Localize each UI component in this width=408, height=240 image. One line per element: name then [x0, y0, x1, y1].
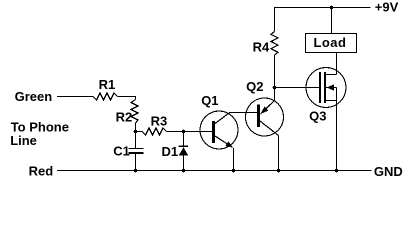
node junction dot R2/R3/C1 [134, 130, 138, 134]
svg-text:R3: R3 [151, 114, 168, 129]
mosfet Q3 [306, 68, 346, 108]
svg-text:+9V: +9V [375, 0, 399, 15]
wire rail to Load [331, 8, 333, 34]
junction dot Q2 collector to rail [277, 169, 281, 173]
junction dot rail to Load [330, 6, 334, 10]
svg-text:Red: Red [29, 164, 54, 179]
svg-text:R4: R4 [253, 40, 270, 55]
wire rail corner to R4 [274, 7, 276, 32]
junction dot D1 to rail [182, 169, 186, 173]
svg-text:GND: GND [374, 164, 403, 179]
svg-text:Q3: Q3 [309, 108, 326, 123]
label To Phone Line [10, 119, 69, 148]
svg-text:To Phone: To Phone [11, 119, 69, 134]
wire Q2 collector to rail [278, 136, 280, 171]
wire red lead / GND rail [57, 170, 372, 172]
transistor Q2 [246, 98, 284, 136]
label R1 [99, 77, 116, 92]
wire node to Q3 gate [275, 87, 320, 89]
label Q1 [201, 93, 218, 108]
capacitor C1 [129, 132, 144, 171]
wire Load to Q3 drain [336, 53, 338, 75]
resistor R3 [142, 128, 167, 135]
wire Q1 emitter to rail [233, 148, 235, 171]
wire R4 to node [274, 55, 276, 88]
svg-text:R1: R1 [99, 77, 116, 92]
wire R3 to Q1 base [167, 131, 213, 133]
svg-text:R2: R2 [116, 109, 133, 124]
wire Q3 source to rail [336, 88, 338, 171]
load box [306, 34, 357, 53]
junction dot C1 to rail [134, 169, 138, 173]
label R2 [116, 109, 133, 124]
wire R1 to R2 corner [118, 97, 136, 100]
transistor Q1 [200, 111, 238, 149]
svg-text:Load: Load [314, 35, 347, 50]
node junction dot R4/Q2/Q3 gate [273, 86, 277, 90]
junction dot Q1 emitter to rail [232, 169, 236, 173]
resistor R4 [271, 32, 278, 56]
svg-text:D1: D1 [162, 144, 179, 159]
resistor R1 [93, 93, 118, 100]
junction dot Q3 source to rail [335, 169, 339, 173]
wire Q1 collector to Q2 base [230, 112, 258, 114]
label Q3 [309, 108, 326, 123]
label Q2 [246, 79, 263, 94]
wire node to R3 [136, 131, 143, 133]
label C1 [113, 143, 130, 158]
node junction dot D1 [182, 130, 186, 134]
wire R2 to node [135, 123, 137, 132]
label Red [29, 164, 54, 179]
label R3 [151, 114, 168, 129]
svg-text:Line: Line [10, 133, 37, 148]
label Load [314, 35, 347, 50]
svg-text:Q1: Q1 [201, 93, 218, 108]
svg-text:C1: C1 [113, 143, 130, 158]
label D1 [162, 144, 179, 159]
wire green lead [57, 96, 93, 98]
label +9V [375, 0, 399, 15]
label GND [374, 164, 403, 179]
label Green [15, 89, 53, 104]
wire Q2 emitter to node [274, 88, 276, 101]
diode D1 [179, 132, 189, 171]
svg-text:Green: Green [15, 89, 53, 104]
label R4 [253, 40, 270, 55]
resistor R2 [131, 100, 138, 124]
svg-text:Q2: Q2 [246, 79, 263, 94]
wire +9V rail [275, 7, 371, 9]
